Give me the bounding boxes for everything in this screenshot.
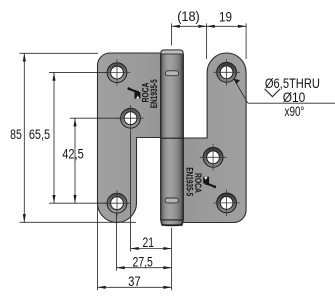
dim line (18)	[172, 25, 207, 27]
svg-text:85: 85	[10, 126, 22, 142]
dim line 65,5	[53, 73, 55, 204]
arrow 27,5 right	[163, 266, 171, 269]
countersink symbol	[265, 89, 281, 97]
svg-text:19: 19	[219, 8, 232, 24]
arrow 18 right	[198, 25, 206, 28]
leader arrow at hole	[234, 79, 240, 84]
ext line ear right top	[245, 23, 247, 59]
arrow 19 left	[207, 25, 215, 28]
hole H6	[213, 190, 239, 216]
ext line hole3 vertical	[116, 214, 118, 271]
svg-text:x90°: x90°	[285, 104, 305, 120]
ext line hole3	[49, 202, 108, 204]
ext line pin axis bottom	[171, 228, 173, 290]
arrow 37 right	[163, 286, 171, 289]
barrel top cap	[161, 50, 183, 54]
ext line hole2 vertical	[130, 131, 132, 251]
arrowheads	[23, 25, 246, 289]
ext line pin axis top	[171, 23, 173, 45]
dim line 21	[131, 248, 172, 250]
svg-text:65,5: 65,5	[29, 126, 50, 142]
dim line 19	[207, 25, 247, 27]
leader shelf	[248, 102, 335, 104]
barrel lower slot	[165, 198, 178, 203]
barrel top rim line	[161, 53, 183, 55]
barrel junction line	[161, 137, 184, 139]
arrow 85 bottom	[23, 214, 26, 222]
dim line 42,5	[74, 118, 76, 203]
dim line 85	[23, 53, 25, 222]
leader line diagonal	[234, 79, 248, 103]
hole H2	[117, 105, 143, 131]
barrel bottom rim line	[161, 219, 183, 221]
arrow 42,5 top	[73, 118, 76, 126]
arrow 42,5 bottom	[73, 195, 76, 203]
arrow 21 left	[131, 247, 139, 250]
hole H3	[104, 190, 130, 216]
svg-text:37: 37	[128, 273, 141, 289]
arrow 65,5 bottom	[52, 195, 55, 203]
arrow 19 right	[238, 25, 246, 28]
right leaf plate = 180deg rotation	[172, 53, 247, 223]
barrel upper section	[161, 54, 184, 139]
ext line leaf left vertical	[97, 204, 99, 290]
ext line leaf top	[20, 52, 99, 54]
arrow 65,5 top	[52, 73, 55, 81]
svg-text:42,5: 42,5	[62, 146, 84, 162]
svg-text:(18): (18)	[177, 8, 200, 24]
ext line hole2	[70, 117, 121, 119]
arrow 18 left	[172, 25, 180, 28]
dim line 27,5	[117, 267, 172, 269]
ext line ear left top	[206, 23, 208, 59]
hole H5	[200, 144, 226, 170]
left leaf plate with logo	[98, 53, 173, 223]
barrel bottom cap	[161, 220, 183, 225]
hole H1	[104, 59, 130, 85]
ext line leaf bottom	[20, 221, 137, 223]
dim line 37	[98, 286, 172, 288]
arrow 85 top	[23, 53, 26, 61]
arrow 21 right	[163, 247, 171, 250]
svg-text:27,5: 27,5	[133, 254, 153, 270]
svg-text:21: 21	[143, 234, 155, 250]
ext line hole1	[49, 72, 108, 74]
barrel lower section	[161, 138, 184, 220]
arrow 37 left	[98, 286, 106, 289]
arrow 27,5 left	[117, 266, 125, 269]
barrel upper slot	[166, 71, 179, 76]
hole H4	[213, 59, 239, 85]
